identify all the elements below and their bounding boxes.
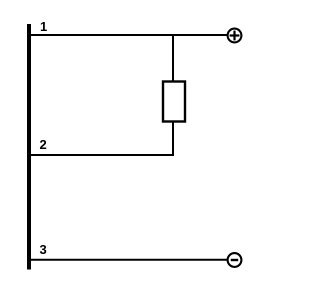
wire 2 bbox=[29, 154, 174, 156]
wire 3 bbox=[29, 259, 228, 261]
svg-text:1: 1 bbox=[40, 19, 47, 34]
terminal + bbox=[228, 29, 242, 43]
bus bar bbox=[27, 24, 31, 270]
wire 1 bbox=[29, 34, 228, 36]
svg-text:2: 2 bbox=[40, 137, 47, 152]
svg-text:3: 3 bbox=[40, 242, 47, 257]
wire from node 1 to resistor bbox=[172, 35, 174, 82]
resistor R1 bbox=[163, 82, 185, 122]
terminal - bbox=[228, 253, 242, 267]
wire from resistor to node 2 bbox=[172, 121, 174, 156]
